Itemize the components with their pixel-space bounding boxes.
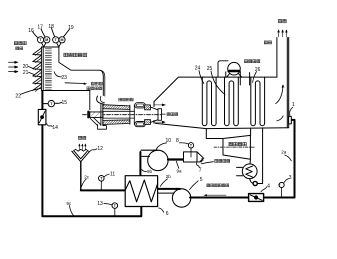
svg-text:T: T: [50, 102, 53, 106]
svg-text:23: 23: [61, 75, 67, 81]
svg-text:T: T: [39, 38, 42, 42]
svg-text:11: 11: [110, 171, 115, 177]
svg-text:T: T: [114, 204, 117, 208]
svg-text:21: 21: [23, 70, 29, 76]
svg-text:M: M: [45, 38, 48, 42]
svg-text:T: T: [55, 38, 58, 42]
svg-text:9a: 9a: [176, 169, 182, 174]
svg-text:17: 17: [37, 25, 43, 31]
svg-text:16: 16: [28, 28, 34, 34]
svg-text:6: 6: [166, 211, 169, 217]
svg-text:4: 4: [267, 183, 270, 189]
svg-text:26: 26: [255, 67, 261, 73]
svg-text:9c: 9c: [66, 201, 72, 206]
svg-text:T: T: [190, 144, 193, 148]
svg-text:2a: 2a: [281, 150, 287, 155]
svg-text:2c: 2c: [84, 174, 90, 179]
svg-text:M: M: [61, 38, 64, 42]
svg-text:1: 1: [292, 102, 295, 108]
svg-text:T: T: [100, 177, 103, 181]
svg-text:15: 15: [62, 100, 68, 106]
svg-text:24: 24: [195, 65, 201, 71]
svg-text:22: 22: [15, 93, 21, 99]
svg-text:9b: 9b: [147, 169, 153, 174]
svg-text:25: 25: [207, 66, 213, 72]
svg-text:13: 13: [97, 201, 103, 207]
svg-text:10: 10: [166, 138, 172, 144]
svg-text:7: 7: [199, 168, 202, 174]
svg-text:14: 14: [52, 125, 58, 131]
svg-text:19: 19: [68, 25, 74, 31]
svg-text:12: 12: [97, 146, 103, 152]
svg-text:18: 18: [48, 24, 54, 30]
svg-text:8: 8: [176, 138, 179, 144]
svg-text:3: 3: [289, 175, 292, 181]
svg-text:5: 5: [200, 177, 203, 183]
svg-text:2b: 2b: [166, 174, 172, 179]
